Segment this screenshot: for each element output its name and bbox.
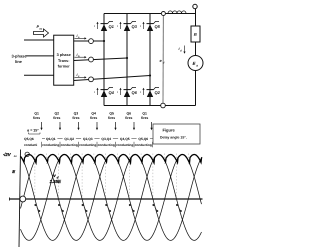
svg-text:√2V: √2V bbox=[3, 152, 12, 157]
svg-text:Q3: Q3 bbox=[74, 112, 79, 116]
svg-text:1.35E: 1.35E bbox=[50, 179, 63, 184]
svg-text:Delay angle 15°.: Delay angle 15°. bbox=[160, 135, 187, 139]
svg-text:LL: LL bbox=[14, 155, 18, 158]
svg-text:conducti: conducti bbox=[24, 143, 37, 147]
svg-text:conducting: conducting bbox=[61, 143, 78, 147]
svg-text:conducting: conducting bbox=[116, 143, 133, 147]
svg-text:fires: fires bbox=[108, 116, 115, 120]
svg-text:Q3,Q4: Q3,Q4 bbox=[101, 137, 111, 141]
svg-text:fires: fires bbox=[141, 116, 148, 120]
svg-text:Q6: Q6 bbox=[127, 112, 132, 116]
svg-text:fires: fires bbox=[33, 116, 40, 120]
svg-text:R: R bbox=[194, 32, 197, 37]
svg-text:Q1,Q2: Q1,Q2 bbox=[64, 137, 74, 141]
svg-text:3-phase: 3-phase bbox=[12, 54, 28, 59]
svg-text:former: former bbox=[58, 65, 71, 69]
svg-text:fires: fires bbox=[72, 116, 79, 120]
svg-text:Q1: Q1 bbox=[142, 112, 147, 116]
svg-text:3 phase: 3 phase bbox=[57, 53, 71, 57]
svg-text:Q1: Q1 bbox=[34, 112, 39, 116]
svg-text:Q5: Q5 bbox=[155, 24, 161, 29]
svg-text:fires: fires bbox=[90, 116, 97, 120]
svg-text:fires: fires bbox=[125, 116, 132, 120]
svg-text:Q4: Q4 bbox=[109, 90, 115, 95]
svg-text:Q1: Q1 bbox=[109, 24, 115, 29]
svg-text:Q2: Q2 bbox=[155, 90, 161, 95]
svg-text:Q5,Q6: Q5,Q6 bbox=[24, 137, 34, 141]
svg-text:Q2,Q3: Q2,Q3 bbox=[83, 137, 93, 141]
svg-text:line: line bbox=[15, 59, 23, 64]
svg-text:Q6,Q1: Q6,Q1 bbox=[46, 137, 56, 141]
svg-text:E: E bbox=[12, 169, 15, 174]
svg-text:conducting: conducting bbox=[98, 143, 115, 147]
svg-text:fires: fires bbox=[53, 116, 60, 120]
svg-text:Q4,Q5: Q4,Q5 bbox=[120, 137, 130, 141]
svg-text:Figure: Figure bbox=[163, 128, 176, 133]
svg-text:Trans-: Trans- bbox=[58, 59, 70, 63]
svg-text:conducting: conducting bbox=[79, 143, 96, 147]
svg-text:conducting: conducting bbox=[135, 143, 152, 147]
svg-text:conducting: conducting bbox=[42, 143, 59, 147]
svg-text:Q6: Q6 bbox=[132, 90, 138, 95]
svg-text:Q5,Q6: Q5,Q6 bbox=[138, 137, 148, 141]
svg-text:Q5: Q5 bbox=[109, 112, 114, 116]
svg-text:Q2: Q2 bbox=[55, 112, 60, 116]
svg-text:Q4: Q4 bbox=[91, 112, 96, 116]
svg-text:Q3: Q3 bbox=[132, 24, 138, 29]
svg-text:α = 15°: α = 15° bbox=[27, 129, 39, 133]
